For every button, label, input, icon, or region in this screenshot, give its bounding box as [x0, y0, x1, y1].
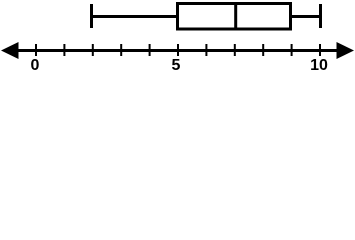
tick 9: [291, 44, 293, 56]
box-plot median line at 7: [234, 2, 237, 31]
svg-text:5: 5: [172, 57, 181, 74]
tick 1: [63, 44, 65, 56]
svg-text:10: 10: [310, 57, 328, 74]
tick 3: [120, 44, 122, 56]
box-plot left whisker line (min 2 to Q1 5): [92, 15, 178, 18]
box-plot right whisker cap at 10: [319, 4, 322, 28]
box-plot box (Q1 5 to Q3 9): [178, 4, 291, 30]
tick 6: [205, 44, 207, 56]
tick 5: [177, 44, 179, 56]
tick 8: [262, 44, 264, 56]
number line left arrowhead: [1, 42, 19, 59]
tick 2: [92, 44, 94, 56]
box-plot left whisker cap at 2: [90, 4, 93, 28]
tick 10: [319, 44, 321, 56]
tick 7: [234, 44, 236, 56]
tick 0: [35, 44, 37, 56]
tick 4: [149, 44, 151, 56]
number line right arrowhead: [337, 42, 355, 59]
number line axis: [12, 49, 343, 52]
svg-text:0: 0: [31, 57, 40, 74]
box-plot right whisker line (Q3 9 to max 10): [291, 15, 320, 18]
